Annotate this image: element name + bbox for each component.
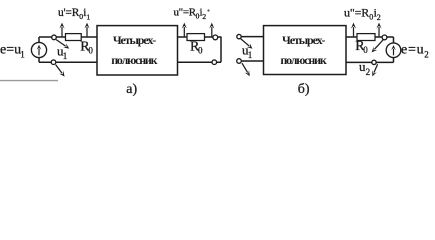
svg-text:0: 0 bbox=[88, 45, 93, 55]
svg-text:0: 0 bbox=[363, 45, 368, 55]
svg-text:u'=R: u'=R bbox=[58, 7, 80, 19]
svg-text:u"=R: u"=R bbox=[174, 7, 197, 19]
svg-text:2: 2 bbox=[377, 13, 381, 22]
svg-text:Четырех-: Четырех- bbox=[282, 33, 325, 47]
svg-text:1: 1 bbox=[86, 12, 90, 21]
svg-text:2: 2 bbox=[366, 67, 371, 77]
svg-text:б): б) bbox=[298, 82, 310, 97]
svg-text:2: 2 bbox=[202, 12, 206, 21]
svg-text:2: 2 bbox=[424, 49, 429, 59]
svg-text:полюсник: полюсник bbox=[280, 53, 326, 67]
svg-text:e=u: e=u bbox=[401, 43, 424, 58]
svg-text:1: 1 bbox=[20, 49, 25, 59]
svg-text:0: 0 bbox=[198, 45, 203, 55]
svg-text:e=u: e=u bbox=[0, 43, 21, 58]
svg-text:1: 1 bbox=[248, 50, 253, 60]
svg-text:Четырех-: Четырех- bbox=[113, 33, 156, 47]
svg-text:1: 1 bbox=[63, 51, 68, 61]
svg-text:полюсник: полюсник bbox=[111, 53, 157, 67]
svg-text:u"=R: u"=R bbox=[344, 6, 369, 20]
svg-text:а): а) bbox=[126, 82, 137, 97]
